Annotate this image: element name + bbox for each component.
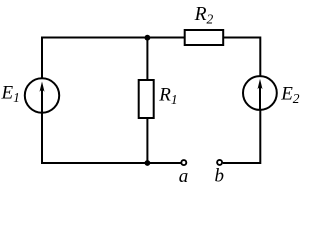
svg-text:E2: E2 bbox=[280, 84, 300, 107]
svg-text:R2: R2 bbox=[194, 4, 214, 27]
svg-text:a: a bbox=[179, 166, 189, 187]
svg-text:b: b bbox=[215, 166, 225, 187]
svg-text:E1: E1 bbox=[1, 83, 20, 106]
svg-text:R1: R1 bbox=[158, 85, 177, 108]
